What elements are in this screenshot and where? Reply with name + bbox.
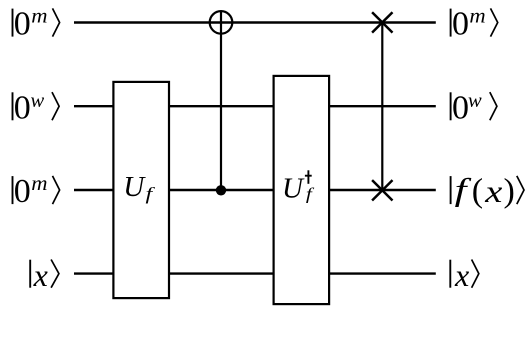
- svg-text:m: m: [31, 4, 47, 27]
- svg-text:0: 0: [14, 6, 31, 43]
- svg-text:0: 0: [452, 6, 469, 43]
- svg-text:0: 0: [14, 89, 31, 126]
- svg-text:w: w: [31, 90, 45, 112]
- svg-text:0: 0: [14, 173, 31, 210]
- svg-text:U: U: [282, 173, 305, 205]
- svg-text:m: m: [31, 172, 47, 195]
- svg-text:): ): [504, 173, 515, 210]
- svg-text:x: x: [33, 257, 48, 293]
- svg-text:x: x: [454, 257, 469, 293]
- svg-text:x: x: [484, 174, 502, 209]
- svg-text:w: w: [468, 90, 482, 112]
- svg-text:0: 0: [452, 89, 469, 126]
- svg-text:U: U: [123, 171, 146, 203]
- svg-text:m: m: [469, 4, 485, 27]
- svg-text:(: (: [472, 173, 483, 210]
